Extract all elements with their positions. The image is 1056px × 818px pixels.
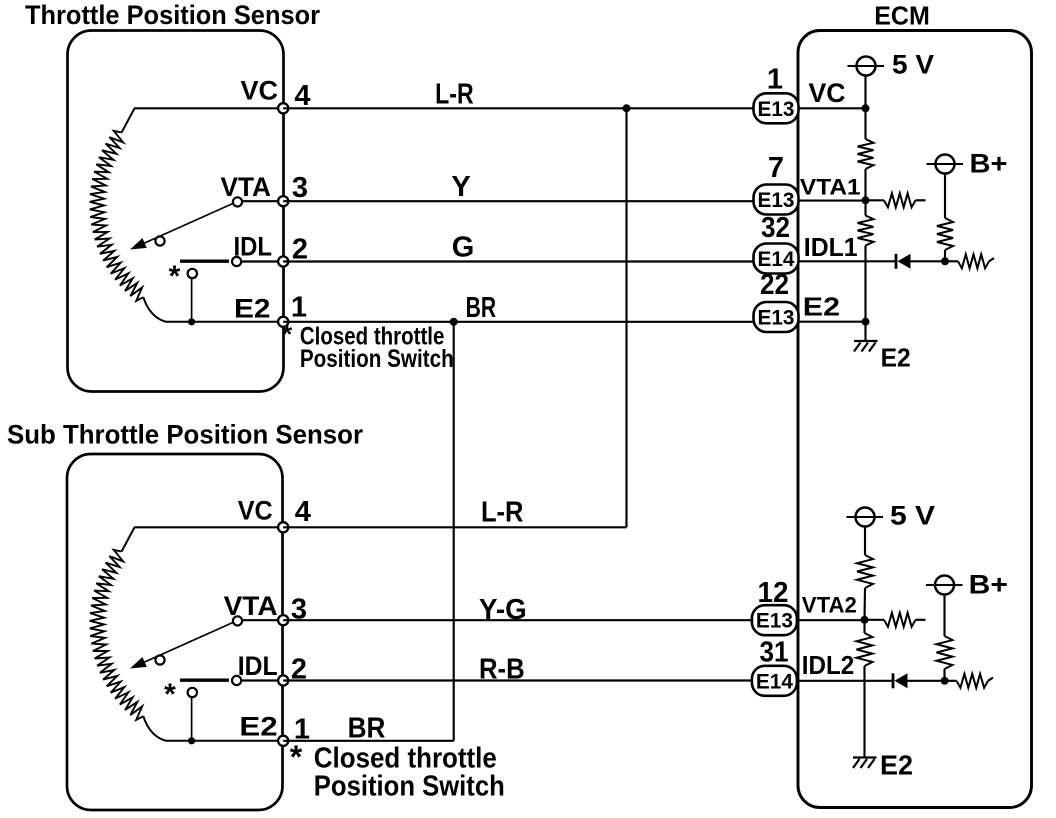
svg-text:VC: VC	[238, 496, 273, 526]
svg-text:*: *	[282, 319, 293, 349]
wire node to resistor	[864, 108, 866, 139]
svg-text:E14: E14	[758, 248, 795, 271]
5V supply symbol top	[848, 50, 935, 80]
pin circle VTA pin 3	[278, 615, 288, 625]
wire chain down to E2 node	[864, 246, 866, 322]
wire E2 lead inside sensor	[143, 716, 283, 741]
wire 5V to resistor bottom	[864, 527, 866, 556]
svg-text:E2: E2	[880, 750, 913, 781]
resistor VTA1-IDL1 chain	[864, 200, 866, 215]
junction IDL1 B+ node	[941, 257, 949, 265]
svg-text:VTA1: VTA1	[800, 175, 861, 200]
svg-text:B+: B+	[970, 149, 1008, 179]
B+ supply symbol bottom	[926, 570, 1008, 600]
5V supply symbol bottom	[847, 501, 936, 531]
resistor IDL2 (horizontal)	[957, 674, 989, 688]
pin circle IDL pin 2	[278, 675, 288, 685]
wire 5V to VC node	[864, 76, 866, 109]
wire diode to B+ node	[911, 260, 946, 262]
wire sub VC to L-R vertical	[283, 526, 626, 528]
junction VTA1 node	[862, 196, 870, 204]
svg-text:B+: B+	[969, 570, 1008, 600]
resistor IDL1 (horizontal)	[958, 254, 989, 268]
wire E2 node to ground	[864, 322, 866, 341]
wire vertical L-R to sub VC	[625, 108, 627, 527]
pin circle E2 pin 1	[278, 736, 288, 746]
ground E2 top	[854, 341, 878, 352]
svg-text:VTA: VTA	[224, 591, 278, 621]
svg-text:32: 32	[761, 212, 790, 244]
terminal circle VTA	[233, 616, 242, 625]
wire resistor to IDL1 node	[944, 250, 946, 261]
closed throttle switch fixed contact	[188, 688, 197, 697]
wire IDL1 connector to diode	[799, 260, 897, 262]
junction BR to sub E2	[450, 318, 458, 326]
resistor VTA2 pull (horizontal)	[865, 619, 885, 621]
svg-text:E2: E2	[803, 292, 840, 322]
pin circle VTA pin 3	[278, 196, 288, 206]
resistor 5V-VTA1	[858, 139, 874, 169]
terminal circle IDL	[232, 676, 241, 685]
junction E2 node	[862, 318, 870, 326]
wire VC lead inside sensor	[134, 107, 283, 109]
junction VTA2 node	[861, 616, 869, 624]
svg-text:BR: BR	[466, 292, 497, 324]
wire resistor to VTA1 node	[864, 169, 866, 200]
wire BR (E2 top row)	[283, 321, 753, 323]
svg-text:3: 3	[292, 172, 308, 204]
svg-text:5 V: 5 V	[892, 50, 934, 80]
wiper arm contact (movable)	[155, 236, 164, 245]
wire resistor to IDL2 node	[943, 669, 945, 681]
terminal circle VTA	[233, 197, 242, 206]
svg-text:L-R: L-R	[481, 497, 524, 529]
svg-text:4: 4	[295, 496, 311, 528]
wire vertical BR to sub E2	[453, 322, 455, 741]
wire IDL2 connector to diode	[799, 680, 894, 682]
svg-text:VC: VC	[241, 76, 279, 106]
wire G (IDL top row)	[283, 260, 753, 262]
svg-text:Throttle Position Sensor: Throttle Position Sensor	[25, 0, 320, 30]
wire diode to B+ node bottom	[908, 680, 945, 682]
IDL switch contact bar	[180, 679, 229, 682]
wire E2 connector to node	[799, 321, 866, 323]
wire E2 lead inside sensor	[143, 297, 283, 322]
svg-text:Y: Y	[451, 171, 470, 203]
svg-text:R-B: R-B	[479, 654, 525, 686]
svg-text:4: 4	[294, 80, 310, 112]
wire VTA1 connector to node	[799, 200, 866, 202]
svg-text:7: 7	[768, 152, 784, 184]
svg-text:E2: E2	[239, 712, 277, 742]
svg-text:E14: E14	[756, 670, 793, 693]
throttle position sensor box	[68, 31, 284, 392]
svg-text:1: 1	[291, 292, 307, 324]
svg-text:VTA2: VTA2	[802, 593, 857, 618]
sub throttle position sensor box	[67, 454, 283, 810]
wire Y-G (sub VTA row)	[283, 619, 753, 621]
wire Y (VTA top row)	[283, 200, 753, 202]
wire VC lead inside sensor	[134, 526, 283, 528]
junction VC to sub sensor	[623, 104, 631, 112]
svg-text:31: 31	[760, 637, 789, 669]
wire VTA2 connector to node	[799, 619, 865, 621]
pin circle VC pin 4	[278, 522, 288, 532]
svg-text:VC: VC	[809, 78, 846, 108]
svg-text:E2: E2	[234, 294, 271, 324]
resistor VTA1 pull (horizontal)	[866, 199, 885, 201]
svg-text:*: *	[164, 678, 176, 711]
diode IDL1	[896, 254, 911, 269]
wiper arrow	[145, 621, 237, 662]
svg-text:Sub Throttle Position Sensor: Sub Throttle Position Sensor	[7, 420, 363, 450]
terminal circle IDL	[232, 257, 241, 266]
wire B+ to resistor bottom	[943, 595, 945, 637]
wire resistor to VTA2 node	[863, 588, 866, 620]
wire B+ to resistor	[944, 174, 946, 219]
svg-text:IDL: IDL	[238, 651, 278, 681]
svg-text:1: 1	[767, 63, 783, 95]
svg-text:5 V: 5 V	[890, 501, 935, 531]
wire VC connector to node	[799, 107, 866, 109]
wire L-R (VC top row)	[283, 107, 753, 109]
resistor B+ bottom	[937, 636, 953, 669]
svg-text:Y-G: Y-G	[479, 594, 527, 626]
svg-text:Position Switch: Position Switch	[314, 771, 505, 803]
ground E2 bottom	[853, 758, 877, 769]
svg-text:22: 22	[760, 269, 789, 301]
potentiometer resistive element	[90, 131, 144, 301]
wire chain down to ground bottom	[863, 666, 865, 758]
svg-text:E13: E13	[758, 307, 795, 330]
resistor 5V-VTA2	[857, 555, 873, 588]
svg-text:BR: BR	[348, 713, 386, 745]
wiper arrow	[145, 202, 237, 243]
IDL switch contact bar	[180, 260, 229, 263]
svg-text:E13: E13	[758, 189, 795, 212]
svg-text:E13: E13	[756, 610, 793, 633]
junction IDL2 B+ node	[941, 677, 949, 685]
svg-text:VTA: VTA	[221, 172, 272, 202]
wire sub E2 to BR vertical	[283, 740, 454, 742]
svg-text:E13: E13	[758, 98, 795, 121]
ECM box	[798, 31, 1032, 808]
diode IDL2	[893, 673, 908, 688]
wire R-B (sub IDL row)	[283, 679, 753, 681]
svg-text:*: *	[290, 739, 303, 775]
svg-text:IDL: IDL	[234, 232, 273, 262]
closed throttle switch fixed contact	[188, 269, 197, 278]
wiper arm contact (movable)	[155, 655, 164, 664]
svg-text:G: G	[452, 232, 475, 264]
pin circle E2 pin 1	[278, 317, 288, 327]
svg-text:IDL2: IDL2	[802, 650, 854, 680]
svg-text:IDL1: IDL1	[804, 232, 858, 262]
resistor VTA2-IDL2 chain	[863, 620, 865, 633]
svg-text:ECM: ECM	[874, 1, 930, 31]
resistor B+ top	[937, 218, 953, 250]
svg-text:L-R: L-R	[435, 79, 474, 111]
junction VC node	[862, 104, 870, 112]
svg-text:Position Switch: Position Switch	[300, 345, 454, 373]
B+ supply symbol top	[927, 149, 1008, 179]
pin circle IDL pin 2	[278, 256, 288, 266]
svg-text:*: *	[169, 260, 181, 293]
pin circle VC pin 4	[278, 103, 288, 113]
potentiometer resistive element	[90, 550, 144, 720]
svg-text:E2: E2	[881, 343, 911, 373]
